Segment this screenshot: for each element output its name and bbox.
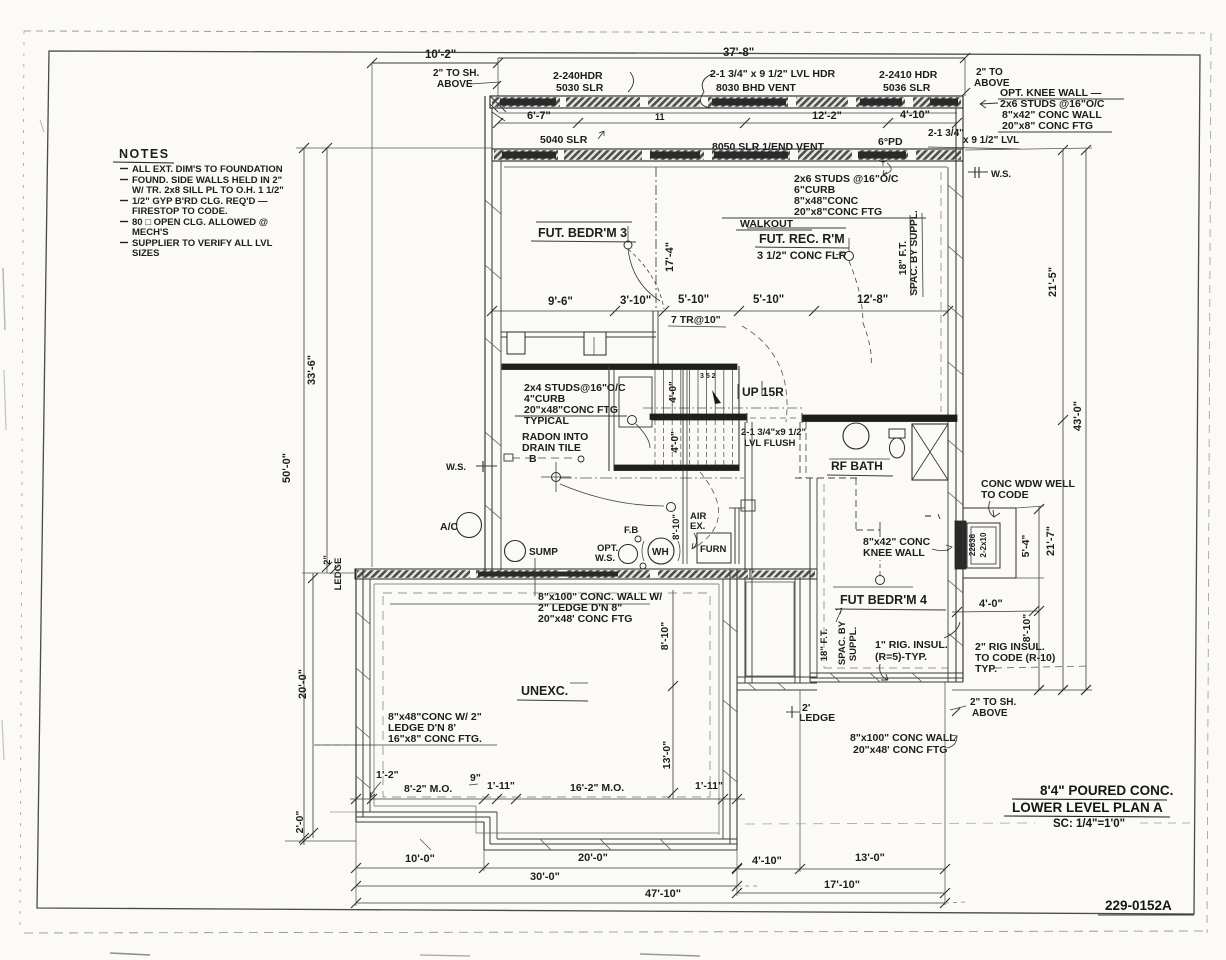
svg-text:6°PD: 6°PD bbox=[878, 136, 903, 148]
svg-text:FUT BEDR'M 4: FUT BEDR'M 4 bbox=[840, 593, 927, 607]
svg-text:4'-0": 4'-0" bbox=[670, 431, 681, 453]
stair center stringer bbox=[682, 369, 684, 465]
svg-text:229-0152A: 229-0152A bbox=[1105, 898, 1172, 913]
wall seg right of furnace bbox=[750, 569, 817, 579]
right wall hatch tick bbox=[948, 246, 963, 259]
svg-text:37'-8": 37'-8" bbox=[723, 47, 754, 59]
dim 10'-2" line bbox=[372, 62, 498, 64]
svg-text:4'-10": 4'-10" bbox=[900, 109, 930, 121]
left wall hatch tick bbox=[485, 200, 501, 214]
scan specks left edge bbox=[3, 268, 5, 330]
svg-text:ALL EXT. DIM'S TO FOUNDATION: ALL EXT. DIM'S TO FOUNDATION bbox=[132, 164, 283, 175]
svg-text:EX.: EX. bbox=[690, 521, 705, 532]
svg-text:4'-0": 4'-0" bbox=[979, 598, 1003, 610]
wall band B dark segment bbox=[502, 152, 556, 159]
outer faint dashed border bbox=[24, 31, 1205, 33]
bath sink circle bbox=[843, 423, 869, 449]
svg-text:LEDGE: LEDGE bbox=[799, 712, 835, 724]
dim line under band A bbox=[498, 122, 957, 124]
door jamb ticks bbox=[746, 413, 748, 423]
recrm footing dash right bbox=[940, 172, 942, 412]
svg-text:5'-10": 5'-10" bbox=[753, 294, 784, 306]
radon dash line bbox=[512, 457, 576, 459]
right wall hatch tick bbox=[948, 580, 963, 593]
recrm leader curve bbox=[849, 261, 863, 323]
door opening dash bbox=[750, 417, 800, 419]
svg-text:FURN: FURN bbox=[700, 544, 727, 555]
svg-text:1'-11": 1'-11" bbox=[695, 780, 723, 792]
svg-text:20"x8"CONC FTG: 20"x8"CONC FTG bbox=[794, 206, 882, 218]
left wall hatch tick bbox=[485, 432, 501, 446]
svg-text:43'-0": 43'-0" bbox=[1072, 401, 1084, 431]
scan specks bottom bbox=[110, 953, 150, 955]
ext line x800 bbox=[799, 690, 801, 872]
svg-text:47'-10": 47'-10" bbox=[645, 888, 681, 900]
svg-text:12'-2": 12'-2" bbox=[812, 110, 842, 122]
window well outer rect bbox=[963, 508, 1016, 578]
interior dim line bbox=[492, 310, 948, 312]
wall band A hatch segment bbox=[492, 97, 560, 107]
svg-text:3 1/2" CONC FLR: 3 1/2" CONC FLR bbox=[757, 250, 847, 262]
svg-text:5040 SLR: 5040 SLR bbox=[540, 134, 588, 146]
svg-text:2": 2" bbox=[322, 555, 333, 565]
svg-text:2-1 3/4"x9 1/2": 2-1 3/4"x9 1/2" bbox=[741, 427, 806, 438]
svg-text:21'-7": 21'-7" bbox=[1045, 526, 1057, 556]
svg-text:2-2410 HDR: 2-2410 HDR bbox=[879, 69, 938, 81]
svg-text:UP 15R: UP 15R bbox=[742, 385, 784, 399]
bed4 left wall bbox=[809, 478, 811, 682]
bed4 ne corner leader bbox=[944, 622, 960, 638]
stair upper treads bbox=[654, 370, 656, 416]
wall band A hatch segment bbox=[796, 97, 848, 107]
wall band B hatch segment bbox=[916, 150, 961, 160]
svg-text:21'-5": 21'-5" bbox=[1047, 267, 1059, 297]
svg-text:NOTES: NOTES bbox=[119, 147, 170, 161]
wall band B inner face line bbox=[504, 166, 947, 168]
svg-text:2-240HDR: 2-240HDR bbox=[553, 70, 603, 82]
svg-text:W/ TR. 2x8 SILL PL TO O.H. 1 1: W/ TR. 2x8 SILL PL TO O.H. 1 1/2" bbox=[132, 185, 284, 196]
UNEXC top wall outline bbox=[355, 569, 750, 579]
wall band A dark segment bbox=[712, 99, 786, 106]
stair direction triangle bbox=[712, 390, 721, 404]
svg-text:SUPPL.: SUPPL. bbox=[848, 627, 859, 661]
left dim line 33ft bbox=[326, 148, 328, 573]
bedrm3 leader arcs bbox=[628, 249, 660, 301]
wall band B outline bbox=[492, 149, 963, 161]
svg-text:2-1 3/4" x 9 1/2" LVL HDR: 2-1 3/4" x 9 1/2" LVL HDR bbox=[710, 68, 836, 80]
UNEXC footing dashed rect bbox=[383, 593, 710, 797]
dark band 2x4 curb wall bbox=[502, 364, 737, 370]
wall band A hatch segment bbox=[708, 97, 788, 107]
left exterior wall outer lines bbox=[484, 96, 486, 571]
right dim line 43'-0 bbox=[1085, 150, 1087, 690]
svg-text:KNEE WALL: KNEE WALL bbox=[863, 547, 925, 559]
right dim line 21'-5 / 21'-7 bbox=[1062, 150, 1064, 690]
bath dashed partition vertical bbox=[799, 422, 801, 478]
dim line 30ft pieces bbox=[356, 867, 737, 869]
pilaster 1 bbox=[507, 332, 525, 354]
svg-text:8'4" POURED CONC.: 8'4" POURED CONC. bbox=[1040, 783, 1173, 798]
wall band B dark segment bbox=[858, 152, 906, 159]
svg-text:W.S.: W.S. bbox=[446, 462, 466, 473]
svg-text:10'-2": 10'-2" bbox=[425, 49, 456, 61]
svg-text:FIRESTOP TO CODE.: FIRESTOP TO CODE. bbox=[132, 206, 228, 217]
svg-text:8030 BHD VENT: 8030 BHD VENT bbox=[716, 82, 797, 94]
middle bottom wall hatch bbox=[748, 683, 756, 690]
dashed arc stairs to south bbox=[694, 472, 719, 548]
svg-text:20"x8" CONC FTG: 20"x8" CONC FTG bbox=[1002, 120, 1093, 132]
right wall dark knee segment bbox=[955, 521, 966, 569]
svg-text:2" TO: 2" TO bbox=[976, 67, 1003, 78]
room label FUT. REC. R'M bbox=[747, 227, 846, 229]
svg-text:7 TR@10": 7 TR@10" bbox=[671, 314, 721, 326]
wall band B dark segment bbox=[650, 152, 700, 159]
svg-text:18" F.T.: 18" F.T. bbox=[898, 241, 909, 275]
svg-text:SPAC. BY: SPAC. BY bbox=[837, 620, 848, 665]
ext line x484 bottom bbox=[483, 850, 485, 871]
left ext line y573 bbox=[302, 572, 356, 574]
bath dashed partition L bbox=[795, 477, 860, 479]
svg-text:2-1 3/4": 2-1 3/4" bbox=[928, 128, 964, 139]
hall west wall bbox=[744, 422, 746, 577]
dim line 30-0 bbox=[356, 885, 737, 887]
svg-text:x 9 1/2" LVL: x 9 1/2" LVL bbox=[963, 135, 1019, 146]
svg-text:8'-2" M.O.: 8'-2" M.O. bbox=[404, 783, 452, 795]
sump circle bbox=[505, 541, 526, 562]
stair enclosure right wall bbox=[738, 366, 740, 471]
svg-text:TO CODE: TO CODE bbox=[981, 489, 1029, 501]
left dim line 50ft bbox=[303, 148, 305, 845]
svg-text:WH: WH bbox=[652, 547, 669, 558]
pilaster 2 inner mark bbox=[593, 337, 595, 355]
NW corner hatch bbox=[490, 96, 506, 112]
wall band B hatch segment bbox=[858, 150, 908, 160]
svg-text:LOWER LEVEL PLAN A: LOWER LEVEL PLAN A bbox=[1012, 800, 1163, 815]
svg-text:20'-0": 20'-0" bbox=[578, 852, 608, 864]
window well inner box bbox=[967, 523, 1000, 568]
svg-text:UNEXC.: UNEXC. bbox=[521, 684, 568, 698]
wall band A hatch segment bbox=[913, 97, 961, 107]
room label FUT. BEDR'M 3 bbox=[536, 221, 632, 223]
UNEXC top wall hatch seg bbox=[476, 570, 560, 578]
svg-text:9": 9" bbox=[470, 772, 481, 784]
right exterior wall inner line bbox=[947, 167, 949, 682]
stair enclosure left wall bbox=[608, 366, 610, 471]
extension line at plan NW corner bbox=[497, 58, 499, 96]
leader dash 8x48 bbox=[312, 744, 360, 746]
dark band bath wall bbox=[802, 415, 957, 422]
left wall hatch tick bbox=[485, 265, 501, 279]
svg-text:A/C: A/C bbox=[440, 521, 459, 533]
UNEXC top wall dark seg bbox=[478, 572, 618, 577]
svg-text:MECH'S: MECH'S bbox=[132, 227, 169, 238]
wall band A dark segment bbox=[930, 99, 958, 106]
wall band A hatch segment bbox=[856, 97, 905, 107]
svg-text:2-2x10: 2-2x10 bbox=[979, 532, 988, 557]
bed4 bottom wall hatch bbox=[830, 673, 840, 682]
svg-text:17'-10": 17'-10" bbox=[824, 879, 860, 891]
furnace wall bbox=[734, 508, 736, 564]
hall wall pilaster bbox=[741, 500, 755, 511]
wall band B hatch segment bbox=[564, 150, 642, 160]
ext line x356 bottom bbox=[355, 822, 357, 906]
svg-text:TYP.: TYP. bbox=[975, 663, 997, 675]
svg-text:2" TO SH.: 2" TO SH. bbox=[433, 68, 479, 79]
svg-text:12'-8": 12'-8" bbox=[857, 294, 888, 306]
wall band B hatch segment bbox=[494, 150, 558, 160]
bedrm3 riser circle bbox=[624, 241, 632, 249]
cross symbol bbox=[552, 473, 561, 482]
svg-text:4'-0": 4'-0" bbox=[668, 381, 679, 403]
svg-text:18" F.T.: 18" F.T. bbox=[819, 629, 830, 662]
left exterior wall inner line bbox=[500, 161, 502, 571]
svg-text:SC: 1/4"=1'0": SC: 1/4"=1'0" bbox=[1053, 818, 1125, 830]
extension line at plan NE corner bbox=[964, 58, 966, 96]
svg-text:2" TO SH.: 2" TO SH. bbox=[970, 697, 1016, 708]
UNEXC left wall bbox=[355, 569, 357, 822]
UNEXC bottom wall upper step bbox=[356, 811, 497, 813]
extension line left of 10'-2" bbox=[371, 63, 373, 567]
UNEXC inner face lines bbox=[374, 583, 719, 585]
left wall hatch tick bbox=[485, 338, 501, 352]
wall band B hatch segment bbox=[650, 150, 704, 160]
top wall band A outline bbox=[490, 96, 963, 108]
pilaster 2 bbox=[584, 332, 606, 355]
dim line 17-10 bbox=[737, 892, 945, 894]
left ext line y812 bbox=[330, 811, 356, 813]
wall band B dark segment bbox=[714, 152, 788, 159]
room label FUT BEDR'M 4 bbox=[833, 586, 913, 588]
middle cell walls bbox=[744, 577, 746, 683]
bed4 footing dashed bbox=[823, 484, 825, 668]
svg-text:FUT. REC. R'M: FUT. REC. R'M bbox=[759, 232, 845, 246]
dim 37'-8" line bbox=[498, 57, 965, 59]
svg-text:LEDGE: LEDGE bbox=[333, 558, 344, 591]
svg-text:W.S.: W.S. bbox=[991, 169, 1011, 180]
svg-text:TYPICAL: TYPICAL bbox=[524, 415, 570, 427]
svg-text:30'-0": 30'-0" bbox=[530, 871, 560, 883]
bath tub x-box bbox=[912, 424, 948, 480]
svg-text:33'-6": 33'-6" bbox=[306, 355, 318, 385]
svg-text:13'-0": 13'-0" bbox=[661, 741, 673, 770]
stair mid dark band bbox=[653, 415, 747, 420]
wall band A dark segment bbox=[860, 99, 902, 106]
bedrm3 south wall bbox=[501, 331, 656, 333]
right wall hatch tick bbox=[948, 492, 963, 505]
left dim line 20ft bbox=[312, 573, 314, 838]
svg-text:W.S.: W.S. bbox=[595, 553, 615, 564]
well ext lines bbox=[1016, 506, 1044, 508]
svg-text:4'-10": 4'-10" bbox=[752, 855, 782, 867]
svg-text:10'-0": 10'-0" bbox=[405, 853, 435, 865]
right wall hatch tick bbox=[948, 362, 963, 375]
wall band A dark segment bbox=[500, 99, 556, 106]
bath toilet bbox=[890, 438, 905, 458]
svg-text:SIZES: SIZES bbox=[132, 248, 159, 259]
left ext line y148 bbox=[296, 147, 492, 149]
ext line x945 bbox=[944, 682, 946, 905]
flue lines bbox=[682, 471, 684, 564]
recrm lower dash-dot boundary bbox=[643, 407, 803, 409]
UNEXC bottom wall lower step bbox=[497, 838, 737, 840]
svg-text:8'-10": 8'-10" bbox=[671, 514, 682, 540]
partition solid x=656 lower bbox=[652, 311, 654, 366]
right wall hatch tick bbox=[948, 633, 963, 646]
UNEXC right wall bbox=[722, 579, 724, 839]
svg-text:(R=5)-TYP.: (R=5)-TYP. bbox=[875, 651, 927, 663]
svg-text:20"x48' CONC FTG: 20"x48' CONC FTG bbox=[538, 613, 632, 625]
svg-text:11: 11 bbox=[655, 112, 665, 122]
title dashed line bbox=[745, 823, 1035, 824]
bed4 riser bbox=[876, 576, 885, 585]
svg-text:8'-10": 8'-10" bbox=[659, 622, 671, 651]
right ext line y150 bbox=[965, 148, 1092, 150]
svg-text:F.B: F.B bbox=[624, 525, 638, 536]
riser circle at 6-PD bbox=[879, 154, 887, 162]
right exterior wall outer lines bbox=[962, 96, 964, 682]
svg-text:FUT. BEDR'M 3: FUT. BEDR'M 3 bbox=[538, 226, 627, 240]
svg-text:3'-10": 3'-10" bbox=[620, 295, 651, 307]
svg-text:5036 SLR: 5036 SLR bbox=[883, 82, 931, 94]
svg-text:RF BATH: RF BATH bbox=[831, 459, 883, 473]
middle cell inner rect bbox=[746, 582, 794, 676]
svg-text:50'-0": 50'-0" bbox=[281, 453, 293, 483]
svg-text:13'-0": 13'-0" bbox=[855, 852, 885, 864]
left wall hatch tick bbox=[485, 505, 501, 519]
riser circle mid bbox=[667, 503, 676, 512]
stair pivot detail bbox=[619, 377, 652, 427]
right wall hatch tick bbox=[948, 305, 963, 318]
svg-text:8'-10": 8'-10" bbox=[1021, 614, 1033, 643]
svg-text:16"x8" CONC FTG.: 16"x8" CONC FTG. bbox=[388, 733, 482, 745]
bath small wall marks bbox=[925, 515, 931, 517]
svg-text:8"x100" CONC WALL: 8"x100" CONC WALL bbox=[850, 732, 956, 744]
wall band A hatch segment bbox=[648, 97, 700, 107]
dark band hall (left of door) bbox=[650, 414, 747, 420]
svg-text:1" RIG. INSUL.: 1" RIG. INSUL. bbox=[875, 639, 948, 651]
svg-text:16'-2" M.O.: 16'-2" M.O. bbox=[570, 782, 624, 794]
UNEXC wall hatch ticks bbox=[356, 612, 370, 624]
svg-text:1'-11": 1'-11" bbox=[487, 780, 515, 792]
wall band A inner face line bbox=[498, 112, 957, 114]
stair lower treads bbox=[654, 420, 656, 465]
recrm footing dash top bbox=[658, 171, 941, 173]
right bottom ext line bbox=[952, 689, 1092, 691]
svg-text:9'-6": 9'-6" bbox=[548, 296, 573, 308]
svg-text:22636: 22636 bbox=[968, 533, 977, 556]
unexc vertical dim line bbox=[672, 590, 674, 799]
small floor drain circle bbox=[640, 563, 646, 569]
svg-text:3 5 2: 3 5 2 bbox=[700, 373, 716, 380]
svg-text:17'-4": 17'-4" bbox=[664, 242, 676, 272]
furnace box bbox=[697, 533, 731, 563]
leader cross to riser bbox=[560, 484, 664, 506]
svg-text:5'-4": 5'-4" bbox=[1020, 535, 1032, 558]
dashed arc right of stairs bbox=[742, 326, 787, 422]
wall band B hatch segment bbox=[712, 150, 790, 160]
svg-text:20'-0": 20'-0" bbox=[297, 669, 309, 699]
well dim line bbox=[1038, 506, 1040, 690]
mo dim line bbox=[350, 798, 745, 800]
dim line bottom right bbox=[737, 868, 945, 870]
middle bottom wall bbox=[737, 676, 817, 678]
ext line x737 bottom bbox=[736, 850, 738, 896]
partition dash-dot x=656 bbox=[655, 167, 657, 311]
dim line 47-10 bbox=[356, 902, 945, 904]
svg-text:B: B bbox=[529, 453, 537, 465]
svg-text:5'-10": 5'-10" bbox=[678, 294, 709, 306]
UNEXC top wall hatch seg bbox=[658, 570, 748, 578]
right wall hatch tick bbox=[948, 440, 963, 453]
UNEXC step vertical bbox=[483, 822, 485, 850]
UNEXC top wall hatch seg bbox=[357, 570, 470, 578]
svg-text:ABOVE: ABOVE bbox=[972, 708, 1008, 719]
wall band A hatch segment bbox=[566, 97, 640, 107]
svg-text:1'-2": 1'-2" bbox=[376, 769, 399, 781]
wall band B hatch segment bbox=[798, 150, 852, 160]
svg-text:20"x48' CONC FTG: 20"x48' CONC FTG bbox=[853, 744, 947, 756]
UNEXC top wall hatch seg bbox=[566, 570, 650, 578]
bed4 bottom wall bbox=[810, 672, 963, 674]
dash-dot line below stairs bbox=[560, 477, 744, 479]
svg-text:ABOVE: ABOVE bbox=[437, 79, 473, 90]
right wall hatch tick bbox=[948, 185, 963, 198]
svg-text:2'-0": 2'-0" bbox=[294, 811, 306, 834]
svg-text:5030 SLR: 5030 SLR bbox=[556, 82, 604, 94]
recrm riser circle bbox=[845, 252, 854, 261]
svg-text:6'-7": 6'-7" bbox=[527, 110, 551, 122]
left ext line y840 bbox=[285, 840, 356, 842]
WH circle bbox=[648, 538, 674, 564]
stair bottom dark band bbox=[614, 465, 739, 471]
svg-text:SUMP: SUMP bbox=[529, 547, 558, 558]
